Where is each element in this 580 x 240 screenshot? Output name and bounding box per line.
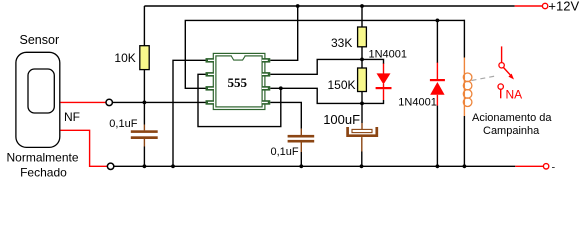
svg-text:+12V: +12V	[548, 0, 579, 14]
label NF	[64, 110, 80, 124]
wire relay coil top lead	[463, 20, 465, 74]
wire cap C2 lower lead	[300, 143, 302, 167]
node junction output diode D2	[436, 19, 440, 23]
pin 7	[262, 72, 270, 77]
pin 4	[206, 100, 214, 105]
terminal +12V circle	[542, 3, 547, 8]
label Sensor	[20, 33, 60, 47]
node junction pin1 ground	[171, 164, 175, 168]
svg-text:10K: 10K	[114, 51, 135, 65]
svg-text:33K: 33K	[331, 36, 352, 50]
node junction pin8 rail	[296, 4, 300, 8]
wire relay coil bottom lead	[463, 107, 465, 167]
svg-text:NA: NA	[506, 88, 523, 102]
diode D2 1N4001	[430, 79, 445, 95]
diode D1 1N4001	[376, 73, 392, 89]
wire red sensor upper lead	[60, 101, 105, 103]
node junction pin2 pin6	[279, 86, 283, 90]
label minus	[552, 161, 556, 173]
node junction 10K sensor pin4	[143, 101, 147, 105]
sensor body outer	[16, 52, 60, 147]
op-amp U1 555 body	[213, 53, 265, 109]
wire pin8 to +12V rail	[270, 6, 297, 60]
svg-text:1N4001: 1N4001	[398, 97, 437, 109]
node junction C3 ground	[360, 164, 364, 168]
capacitor C1 0,1uF	[131, 130, 158, 139]
pin 2	[206, 72, 214, 77]
svg-text:555: 555	[227, 75, 247, 90]
svg-text:Acionamento da: Acionamento da	[472, 112, 552, 124]
node junction C1 ground	[143, 164, 147, 168]
label Fechado	[20, 166, 67, 180]
label 0,1uF C2	[271, 146, 299, 158]
wire pin7 to 33K 150K junction	[270, 59, 362, 74]
node junction C2 ground	[299, 164, 303, 168]
wire diode D1 top branch	[362, 59, 384, 73]
wire cap C3 bottom lead	[361, 137, 363, 166]
wire pin2 to threshold bracket	[198, 74, 281, 126]
terminal sensor lower circle	[107, 163, 113, 169]
resistor 10K	[140, 46, 149, 70]
svg-text:-: -	[552, 161, 556, 173]
relay contact fixed circle NA	[498, 84, 503, 98]
wire cap C1 upper lead	[143, 102, 145, 130]
node junction 150K pin6 C3	[360, 102, 364, 106]
wire diode D1 bottom branch	[362, 89, 384, 103]
pin 5	[262, 100, 270, 105]
svg-text:1N4001: 1N4001	[369, 49, 408, 61]
node junction 33K 150K pin7	[360, 58, 364, 62]
wire cap C1 lower lead	[143, 139, 145, 166]
svg-text:Sensor: Sensor	[20, 33, 60, 47]
resistor 33K	[358, 27, 367, 47]
capacitor C2 0,1uF	[288, 135, 315, 143]
terminal sensor upper circle	[106, 99, 112, 105]
wire 33K bottom lead	[361, 47, 363, 60]
wire red negative terminal lead	[515, 165, 543, 167]
label Normalmente	[7, 151, 79, 165]
wire bottom ground rail	[114, 165, 515, 167]
pin 1	[206, 58, 214, 63]
svg-text:0,1uF: 0,1uF	[271, 146, 299, 158]
relay contact arm with arrow	[504, 68, 515, 80]
terminal negative circle	[543, 164, 548, 169]
wire trigger line to pin 4	[112, 101, 206, 103]
node junction 33K rail	[360, 4, 364, 8]
wire 10K bottom lead	[143, 70, 145, 103]
resistor 150K	[358, 68, 367, 92]
svg-text:Campainha: Campainha	[483, 125, 540, 137]
wire 150K bottom lead	[361, 92, 363, 104]
label 555	[227, 75, 247, 90]
label NA	[506, 88, 523, 102]
svg-text:NF: NF	[64, 110, 80, 124]
wire 33K top lead	[361, 6, 363, 27]
wire pin3 output line	[185, 20, 464, 88]
label 33K	[331, 36, 352, 50]
svg-text:0,1uF: 0,1uF	[109, 118, 137, 130]
wire pin6 to 150K C3 junction	[270, 88, 362, 103]
wire red sensor lower lead	[60, 130, 107, 166]
node junction coil ground	[463, 164, 467, 168]
label 100uF	[323, 112, 360, 127]
wire dashed mechanical link	[472, 76, 499, 81]
wire pin5 to cap C2	[270, 102, 301, 135]
wire pin1 to ground	[173, 60, 206, 166]
capacitor C3 100uF electrolytic	[348, 127, 377, 136]
label 1N4001 D2	[398, 97, 437, 109]
svg-text:Fechado: Fechado	[20, 166, 67, 180]
pin 6	[262, 86, 270, 91]
label 10K	[114, 51, 135, 65]
label 0,1uF C1	[109, 118, 137, 130]
node junction D2 ground	[436, 164, 440, 168]
wire 10K top lead to rail	[143, 6, 145, 46]
label 1N4001 D1	[369, 49, 408, 61]
svg-text:150K: 150K	[328, 78, 356, 92]
svg-text:100uF: 100uF	[323, 112, 360, 127]
wire diode D2 bottom lead	[436, 95, 438, 167]
label +12V	[548, 0, 579, 14]
label Campainha	[483, 125, 540, 137]
sensor body inner	[28, 69, 54, 113]
wire +12V top rail	[144, 5, 514, 7]
svg-text:Normalmente: Normalmente	[7, 151, 79, 165]
wire diode D2 top lead	[436, 20, 438, 79]
label Acionamento da	[472, 112, 552, 124]
relay contact arm stub	[501, 46, 503, 62]
inductor relay coil	[463, 73, 472, 107]
wire red +12V terminal lead	[515, 5, 543, 7]
label 150K	[328, 78, 356, 92]
pin 3	[206, 86, 214, 91]
wire cap C3 top lead	[361, 103, 363, 129]
relay contact pivot circle	[499, 63, 504, 68]
wire 150K top lead	[361, 59, 363, 68]
pin 8	[262, 58, 270, 63]
